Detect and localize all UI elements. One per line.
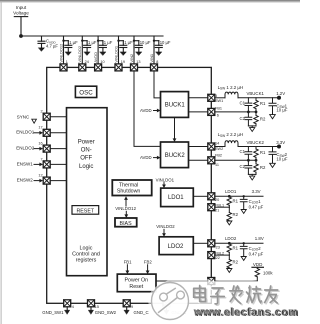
svg-text:SW2: SW2: [215, 147, 223, 151]
Power ON-OFF Logic / control block: [67, 108, 108, 276]
pin 15 GND_SW2: [88, 300, 95, 307]
svg-text:FB2: FB2: [144, 260, 152, 265]
wire FB1 out: [215, 111, 256, 113]
svg-text:FB2: FB2: [215, 153, 222, 157]
svg-text:Logic: Logic: [79, 164, 93, 170]
svg-text:R2: R2: [260, 117, 266, 122]
svg-text:6: 6: [217, 113, 219, 117]
pin 11 FB2: [208, 157, 215, 164]
svg-text:LSW 2 2.2 µH: LSW 2 2.2 µH: [218, 132, 244, 138]
svg-text:VBUCK2: VBUCK2: [247, 140, 265, 145]
svg-text:R1: R1: [260, 150, 266, 155]
node junction dots FB2: [247, 159, 250, 162]
capacitor 1uF pin10: [99, 41, 106, 56]
svg-text:GND_SW1: GND_SW1: [42, 310, 64, 315]
Power On Reset block: [117, 274, 156, 292]
svg-text:R2: R2: [233, 212, 239, 217]
pin 3 GND_L: [163, 300, 170, 307]
resistor R2 buck2: [255, 160, 257, 164]
wire LDO2 to pin23: [193, 242, 208, 244]
svg-text:SW1: SW1: [215, 99, 223, 103]
node junction dot input rail: [19, 34, 23, 38]
resistor R1 buck1: [255, 98, 257, 101]
pin 12 ENSW2: [43, 177, 50, 184]
svg-text:C1: C1: [240, 101, 246, 106]
capacitor C2 buck2: [245, 160, 252, 174]
svg-text:1 µF: 1 µF: [69, 40, 78, 45]
svg-text:24: 24: [85, 60, 89, 64]
svg-text:3.3V: 3.3V: [252, 189, 261, 194]
arrow down to BIAS: [125, 211, 127, 215]
svg-text:14: 14: [215, 141, 219, 145]
pin 22 FBL2: [208, 252, 215, 259]
wire arrow BUCK1 to BUCK2: [174, 117, 176, 139]
capacitor C2 buck1: [245, 112, 252, 126]
svg-text:registers: registers: [76, 257, 97, 263]
svg-text:Thermal: Thermal: [119, 183, 138, 189]
node junction R1 ldo1: [228, 195, 231, 198]
capacitor CSW1 10uF: [269, 98, 276, 115]
svg-text:RESET: RESET: [76, 209, 94, 215]
resistor R2 ldo1: [228, 207, 230, 212]
svg-text:LDO1: LDO1: [168, 195, 184, 201]
svg-text:LSW 1 2.2 µH: LSW 1 2.2 µH: [218, 85, 244, 91]
svg-text:AVDD: AVDD: [140, 155, 152, 160]
svg-text:0.47 µF: 0.47 µF: [249, 251, 264, 256]
svg-text:VINLDO12: VINLDO12: [58, 44, 63, 63]
svg-text:Shutdown: Shutdown: [117, 189, 141, 195]
pin 20 LDO1: [208, 193, 215, 200]
pin 16 ENLDO2: [43, 145, 50, 152]
capacitor 1uF pin19: [120, 41, 127, 56]
BUCK1 block: [161, 92, 189, 118]
svg-text:9: 9: [131, 305, 133, 309]
svg-text:BUCK1: BUCK1: [165, 102, 186, 108]
wire tap pin13: [133, 36, 135, 64]
svg-text:VINLDO1: VINLDO1: [113, 46, 118, 63]
wire SW2 out: [215, 146, 225, 148]
capacitor CVDD 4.7uF: [38, 37, 58, 52]
svg-text:23: 23: [216, 245, 220, 249]
svg-text:C2: C2: [240, 116, 246, 121]
logo small circle B: [177, 291, 185, 299]
svg-text:1: 1: [66, 60, 68, 64]
capacitor CLDO2 0.47uF: [240, 243, 247, 256]
svg-text:Power On: Power On: [125, 278, 149, 284]
pin 17 ENLDO1: [43, 129, 50, 136]
svg-text:17: 17: [38, 126, 42, 130]
svg-text:VDD: VDD: [253, 262, 263, 267]
wire SW1 out: [215, 97, 225, 99]
svg-text:FB1: FB1: [215, 107, 222, 111]
wire tap pin8: [153, 36, 155, 64]
capacitor 1uF pin24: [84, 41, 91, 56]
svg-text:19: 19: [121, 60, 125, 64]
wire tap pin24: [81, 36, 83, 64]
svg-text:AVDD: AVDD: [140, 108, 152, 113]
wire pin17 to logic block: [50, 132, 66, 134]
svg-text:OSC: OSC: [79, 89, 93, 96]
IC outline: [47, 67, 212, 303]
resistor R2 ldo2: [228, 255, 230, 259]
svg-text:ENLDO1: ENLDO1: [16, 130, 35, 135]
BUCK2 block: [161, 142, 189, 168]
pin 10 AVDD: [95, 64, 102, 71]
watermark logo circle: [152, 283, 189, 320]
node Input Voltage terminal: [13, 5, 29, 16]
svg-text:3.3V: 3.3V: [276, 140, 285, 145]
svg-text:R1: R1: [233, 246, 239, 251]
pin 5 SW1: [208, 94, 215, 101]
svg-text:AVDD: AVDD: [93, 52, 98, 63]
svg-text:ON-: ON-: [81, 148, 92, 154]
wire pin16 to logic block: [50, 148, 66, 150]
pin 7 ENSW1: [43, 161, 50, 168]
resistor R1 buck2: [255, 147, 257, 150]
svg-text:2: 2: [40, 110, 42, 114]
svg-text:Voltage: Voltage: [13, 11, 29, 16]
svg-text:10 µF: 10 µF: [276, 108, 287, 113]
pin 8 VIN1: [151, 64, 158, 71]
wire FB2 out: [215, 159, 256, 161]
svg-text:11: 11: [215, 163, 219, 167]
svg-text:0.47 µF: 0.47 µF: [249, 204, 264, 209]
capacitor C1 buck2: [245, 147, 252, 161]
svg-text:1 µF: 1 µF: [124, 40, 133, 45]
svg-text:VIN2: VIN2: [129, 54, 134, 63]
svg-text:10 µF: 10 µF: [140, 40, 151, 45]
svg-text:GND_C: GND_C: [134, 310, 149, 315]
ground R2 ldo1: [227, 221, 232, 225]
svg-text:BUCK2: BUCK2: [165, 153, 186, 159]
wire pin13 to BUCK2: [134, 71, 161, 146]
pin 6 FB1: [208, 108, 215, 115]
svg-text:4: 4: [72, 305, 74, 309]
svg-text:Power: Power: [78, 139, 95, 145]
wire pin8 to BUCK1: [154, 71, 161, 98]
wire RESET pullup to pin18: [215, 280, 257, 282]
LDO1 block: [161, 188, 194, 207]
ground pin4: [65, 307, 70, 314]
wire input drop: [20, 17, 22, 36]
capacitor 10uF pin8: [155, 41, 162, 56]
ground buck2 divider: [251, 174, 253, 176]
Thermal Shutdown block: [112, 180, 151, 196]
wire top supply rail: [21, 35, 163, 37]
resistor R1 ldo1: [228, 195, 230, 198]
wire BUCK1 to FB1 pin: [189, 111, 208, 113]
svg-text:LDO1: LDO1: [225, 189, 237, 194]
ground R2 ldo2: [227, 269, 232, 273]
wire pin12 to logic block: [50, 180, 66, 182]
svg-text:Reset: Reset: [129, 284, 143, 290]
capacitor 10uF pin13: [135, 41, 142, 56]
wire LDO2 out: [215, 242, 263, 244]
svg-text:GND_SW2: GND_SW2: [95, 310, 117, 315]
svg-text:10 µF: 10 µF: [276, 156, 287, 161]
capacitor C1 buck1: [245, 98, 252, 112]
svg-text:ENLDO2: ENLDO2: [16, 146, 35, 151]
resistor R2 buck1: [255, 112, 257, 116]
node junction dots FB1: [247, 111, 250, 114]
svg-text:FB1: FB1: [124, 260, 132, 265]
wire LDO1 to pin20: [193, 195, 208, 197]
svg-text:10: 10: [100, 60, 104, 64]
pin 21 FBL1: [208, 204, 215, 211]
left border line: [1, 2, 2, 324]
svg-text:R1: R1: [233, 199, 239, 204]
arrow FB1 into POR: [126, 265, 128, 272]
top border band: [0, 0, 300, 2]
pin 19 VINLDO1: [115, 64, 122, 71]
svg-text:1 µF: 1 µF: [88, 40, 97, 45]
BIAS block: [115, 218, 137, 227]
pin 18 RESET out: [208, 278, 215, 285]
pin 4 GND_SW1: [64, 300, 71, 307]
wire FBL2: [215, 254, 230, 256]
pin 9 GND_C: [123, 300, 130, 307]
wire tap pin19: [118, 36, 120, 64]
svg-text:LDO2: LDO2: [168, 244, 184, 250]
svg-text:VINLDO2: VINLDO2: [156, 224, 175, 229]
wire tap pin1: [63, 36, 65, 64]
svg-text:ENSW2: ENSW2: [17, 178, 34, 183]
svg-text:100k: 100k: [263, 271, 273, 276]
pin 1 VINLDO12: [60, 64, 67, 71]
wire LDO1 out: [215, 195, 263, 197]
svg-text:R1: R1: [260, 101, 266, 106]
wire BUCK2 to SW2 pin: [189, 146, 208, 148]
svg-text:R2: R2: [233, 260, 239, 265]
inductor LSW1 2.2uH: [225, 92, 238, 98]
svg-text:15: 15: [95, 305, 99, 309]
capacitor CLDO1 0.47uF: [240, 196, 247, 209]
svg-text:C1: C1: [240, 149, 246, 154]
wire join C2 R2: [248, 125, 256, 127]
pin 14 SW2: [208, 143, 215, 150]
svg-text:16: 16: [38, 142, 42, 146]
ground pin15: [88, 307, 93, 314]
logo long diagonal: [158, 298, 177, 313]
svg-text:BIAS: BIAS: [120, 221, 133, 227]
svg-text:SYNC: SYNC: [17, 115, 30, 120]
watermark url text: [193, 306, 299, 319]
svg-text:Input: Input: [16, 5, 27, 10]
svg-text:4.7 µF: 4.7 µF: [46, 44, 58, 49]
watermark: [148, 277, 307, 323]
svg-text:13: 13: [136, 60, 140, 64]
svg-text:www.elecfans.com: www.elecfans.com: [193, 306, 298, 318]
capacitor CSW2 10uF: [269, 147, 276, 164]
watermark chinese characters (approximated glyph strokes): [194, 286, 279, 306]
wire VBUCK2: [238, 146, 279, 148]
Logic Control and registers text: [72, 245, 100, 263]
pin 13 VIN2: [131, 64, 138, 71]
RESET sub-block: [72, 206, 99, 215]
wire BUCK1 to SW1 pin: [189, 97, 208, 99]
svg-text:LDO2: LDO2: [225, 236, 237, 241]
logo small circle A: [160, 293, 168, 301]
wire pin2 to logic block: [50, 116, 66, 118]
svg-text:1 µF: 1 µF: [104, 40, 113, 45]
LDO2 block: [159, 237, 193, 255]
wire pin7 to logic block: [50, 163, 66, 165]
pin 2 SYNC: [43, 113, 50, 120]
svg-text:22: 22: [216, 256, 220, 260]
pin 23 LDO2: [208, 240, 215, 247]
svg-text:VINLDO1: VINLDO1: [156, 177, 175, 182]
arrow up to thermal shutdown: [125, 199, 127, 206]
arrow FB2 into POR: [147, 265, 149, 272]
ground buck1 divider: [251, 126, 253, 128]
wire VBUCK1: [238, 97, 279, 99]
wire POR to pin18: [156, 280, 208, 282]
svg-text:VIN1: VIN1: [149, 54, 154, 63]
wire tap pin10: [97, 36, 99, 64]
wire BUCK2 to FB2 pin: [189, 159, 208, 161]
capacitor 1uF pin1: [65, 41, 72, 56]
svg-text:VINLDO2: VINLDO2: [77, 46, 82, 63]
svg-text:21: 21: [215, 209, 219, 213]
svg-text:12: 12: [38, 174, 42, 178]
svg-text:10 µF: 10 µF: [160, 40, 171, 45]
svg-text:ENSW1: ENSW1: [17, 161, 34, 166]
svg-text:1.2V: 1.2V: [276, 91, 285, 96]
ground pin9: [124, 307, 129, 314]
resistor R1 ldo2: [228, 242, 230, 245]
inductor LSW2 2.2uH: [225, 141, 238, 147]
node junction R1 ldo2: [228, 242, 231, 245]
svg-text:7: 7: [40, 157, 42, 161]
wire join C2 R2 buck2: [248, 173, 256, 175]
wire FBL1: [215, 206, 230, 208]
svg-text:VBUCK1: VBUCK1: [247, 91, 265, 96]
OSC block: [75, 86, 96, 97]
svg-text:8: 8: [156, 60, 158, 64]
svg-text:1.8V: 1.8V: [255, 236, 264, 241]
svg-text:VINLDO12: VINLDO12: [115, 206, 136, 211]
svg-text:C2: C2: [240, 164, 246, 169]
svg-text:R2: R2: [260, 165, 266, 170]
svg-text:OFF: OFF: [80, 156, 92, 162]
resistor 100k: [256, 267, 258, 268]
SYNC open triangle: [32, 119, 37, 123]
svg-text:20: 20: [215, 198, 219, 202]
pin 24 VINLDO2: [79, 64, 86, 71]
logo short diagonal: [167, 288, 176, 294]
ground pin GND_L: [164, 307, 169, 314]
watermark white wash: [163, 280, 307, 320]
